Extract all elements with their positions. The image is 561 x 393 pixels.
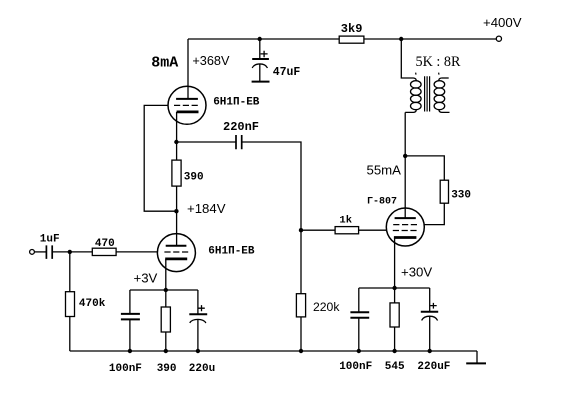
svg-text:470k: 470k: [79, 298, 106, 310]
capacitor C 220nF coupling: [236, 135, 242, 149]
node junction V2 cathode: [164, 288, 168, 292]
svg-text:47uF: 47uF: [273, 66, 301, 79]
transformer T1 output 5K:8R: [405, 73, 449, 113]
svg-text:390: 390: [184, 172, 204, 184]
node junction rail 390 lower: [164, 349, 168, 353]
V1 plate bar: [176, 98, 198, 100]
tetrode V3 G-807: [386, 208, 424, 246]
wire input to 1uF: [35, 251, 47, 253]
node junction rail 220uF: [428, 349, 432, 353]
triode V1 6N1P-EV upper: [168, 86, 206, 124]
wire 470 to V2 grid: [116, 251, 157, 253]
capacitor C 1uF input: [46, 245, 52, 259]
capacitor C 47uF electrolytic to ground: [252, 39, 269, 82]
svg-text:100nF: 100nF: [339, 361, 372, 373]
svg-text:1uF: 1uF: [40, 233, 60, 245]
secondary coil: [439, 78, 442, 81]
wire 470k to bottom rail: [69, 317, 71, 351]
svg-text:+30V: +30V: [401, 265, 432, 280]
svg-text:5K : 8R: 5K : 8R: [416, 54, 461, 70]
svg-text:220nF: 220nF: [223, 120, 259, 134]
V3 control grid dashed: [393, 230, 418, 232]
wire V2 cathode to +3V node: [165, 259, 167, 290]
resistor R 390 cathode lower: [161, 290, 170, 351]
wire screen branch to 330: [405, 156, 444, 180]
node junction rail 220k: [299, 349, 303, 353]
wire 1k branch to V3 grid: [301, 229, 335, 231]
V3 cathode bar: [394, 236, 417, 239]
ground symbol: [476, 351, 478, 363]
node junction rail 545: [392, 349, 396, 353]
node +30V rail: [359, 287, 430, 289]
capacitor C 100nF cathode right: [350, 288, 369, 351]
resistor R 3k9 on top rail: [339, 36, 364, 43]
wire transformer primary bottom down to V3 plate: [404, 112, 406, 218]
node junction input / 470k: [68, 250, 72, 254]
node junction rail 220u: [196, 349, 200, 353]
V2 cathode bar: [165, 257, 187, 260]
node junction rail 100nF left: [128, 349, 132, 353]
resistor R 330 screen: [440, 180, 448, 203]
V2 grid dashed: [164, 251, 188, 253]
V3 plate bar: [395, 217, 416, 219]
svg-text:545: 545: [385, 361, 405, 373]
svg-text:220k: 220k: [313, 300, 340, 314]
svg-text:55mA: 55mA: [367, 162, 402, 177]
svg-text:3k9: 3k9: [341, 22, 363, 36]
node junction 1k tap: [299, 228, 303, 232]
resistor R 390 upper: [172, 160, 181, 186]
svg-text:+3V: +3V: [134, 270, 158, 285]
capacitor C 220u cathode electrolytic: [189, 290, 207, 351]
phase marks: [416, 73, 439, 75]
svg-text:6Н1П-ЕВ: 6Н1П-ЕВ: [208, 245, 255, 257]
wire V1 plate lead: [187, 39, 189, 99]
node junction V3 cathode: [392, 286, 396, 290]
svg-text:8mA: 8mA: [151, 55, 178, 72]
wire 330 to V3 screen grid: [424, 203, 444, 224]
capacitor C 220uF cathode electrolytic: [421, 288, 438, 351]
wire top rail from V1 plate to +400V terminal: [188, 38, 496, 40]
node junction V1 cathode / 220nF: [174, 140, 178, 144]
wire 220nF to grid drop line: [242, 142, 301, 351]
primary coil: [414, 78, 417, 81]
V1 cathode bar: [177, 111, 199, 114]
wire 470k drop: [69, 252, 71, 292]
node junction screen tap: [403, 154, 407, 158]
V1 grid dashed: [174, 104, 198, 106]
wire V3 cathode to +30V node: [394, 238, 396, 289]
node junction 47uF tap on top rail: [258, 37, 262, 41]
resistor R 470k input: [66, 292, 75, 317]
svg-text:100nF: 100nF: [109, 363, 142, 375]
svg-text:220uF: 220uF: [417, 361, 450, 373]
svg-text:1k: 1k: [339, 214, 352, 226]
svg-text:390: 390: [157, 363, 177, 375]
wire V1 cathode down through 390 to V2 plate: [176, 112, 178, 246]
node junction transformer tap on top rail: [399, 37, 403, 41]
wire V1 grid feedback to +184V node: [144, 105, 176, 211]
svg-text:+184V: +184V: [187, 201, 226, 216]
ground bar under 47uF: [252, 81, 270, 83]
core lines: [425, 76, 430, 111]
wire coupling from V1 cathode to 220nF: [176, 141, 235, 143]
V3 screen grid dashed: [393, 224, 417, 226]
node junction rail 100nF right: [357, 349, 361, 353]
capacitor C 100nF cathode left: [121, 290, 140, 351]
svg-text:Г-807: Г-807: [367, 197, 397, 208]
svg-text:330: 330: [451, 190, 471, 202]
resistor R 470 grid stopper: [92, 248, 116, 255]
V2 plate bar: [166, 245, 187, 247]
wire from top rail down to transformer primary: [401, 39, 413, 78]
node +3V rail: [130, 289, 198, 291]
resistor R 545 cathode: [390, 288, 399, 351]
triode V2 6N1P-EV lower: [157, 234, 195, 272]
svg-text:+368V: +368V: [192, 54, 230, 68]
wire 1uF to 470: [53, 251, 93, 253]
svg-text:220u: 220u: [189, 363, 215, 375]
terminal +400V: [496, 36, 501, 41]
wire 1k to V3 grid: [359, 229, 387, 231]
wire bottom ground rail: [70, 350, 477, 352]
svg-text:6Н1П-ЕВ: 6Н1П-ЕВ: [213, 96, 260, 108]
resistor R 1k grid stopper: [335, 227, 359, 234]
node junction +184V: [174, 209, 178, 213]
svg-text:470: 470: [95, 238, 115, 250]
svg-text:+400V: +400V: [483, 15, 522, 30]
terminal input: [30, 250, 35, 255]
resistor R 220k grid leak: [296, 294, 305, 317]
